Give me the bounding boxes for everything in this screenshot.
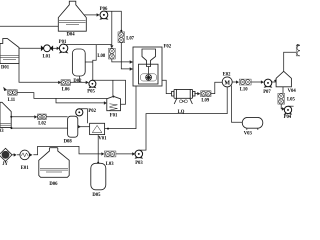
tank D04 (58, 1, 86, 37)
svg-text:LQ: LQ (178, 110, 185, 115)
arrow into L06 (58, 81, 61, 84)
tank D01 (0, 39, 19, 71)
valve L04 at right edge (296, 44, 303, 56)
pump P06 (99, 7, 108, 20)
wire L09 to E02 (211, 82, 222, 93)
svg-text:F02: F02 (164, 45, 172, 50)
node D03 lower outlet (11, 127, 13, 129)
pump P02 (76, 109, 97, 116)
svg-text:P01: P01 (59, 40, 67, 45)
filter F01 (107, 96, 121, 118)
valve L07 (118, 32, 135, 43)
wire P07 to V04 with node (272, 80, 277, 82)
wire D01 to L01 (19, 47, 42, 49)
svg-text:V03: V03 (244, 132, 253, 137)
wire top feed into D04 (0, 25, 58, 27)
tank V01 (90, 123, 108, 141)
svg-text:P02: P02 (88, 109, 96, 114)
vessel D08 (64, 116, 78, 144)
wire JY to E01 with arrow (12, 153, 17, 156)
wire D03 bottom line to D08 (12, 127, 68, 129)
wire L10 to P07 with arrow (251, 80, 264, 83)
svg-text:D08: D08 (64, 140, 73, 145)
valve L03 (104, 151, 116, 167)
wire P05 discharge over F01 (92, 80, 125, 104)
tank D03 (0, 102, 11, 134)
wire P01 discharge to L08 junction (64, 44, 112, 46)
wire L11 staircase to F01 (17, 93, 107, 99)
valve L05 (278, 93, 296, 104)
svg-text:L03: L03 (106, 162, 114, 167)
wire D02 bottom drop (78, 76, 80, 82)
svg-text:D05: D05 (92, 193, 101, 198)
node L07 top junction (120, 30, 122, 32)
crystallizer F02 outer (133, 45, 172, 86)
valve L10 (239, 79, 251, 93)
svg-text:P04: P04 (284, 115, 292, 120)
svg-text:L06: L06 (62, 87, 70, 92)
node D03 upper outlet (10, 116, 12, 118)
wire drop to F01 apex (112, 80, 114, 96)
node F01 apex (112, 96, 114, 98)
svg-text:D02: D02 (73, 79, 82, 84)
wire D02 side stub (85, 61, 93, 63)
valve L11 with inlet arrow (3, 87, 17, 103)
wire L07 bottom to F02 port B with arrow (121, 43, 133, 71)
svg-text:D04: D04 (67, 33, 76, 38)
wire D04 to P06 with arrow (84, 13, 100, 16)
svg-text:E01: E01 (21, 166, 29, 171)
svg-text:P05: P05 (87, 90, 95, 95)
pump P03 (135, 150, 144, 166)
wire V04 bottom to L05 (282, 87, 284, 94)
wire jog from P01 line down to P05 top (93, 45, 96, 81)
pump P05 (87, 80, 96, 94)
vessel D02 (72, 49, 85, 84)
valve L08 (97, 48, 115, 59)
valve L02 (37, 114, 46, 126)
wire E02 to L10 with arrow (232, 80, 239, 83)
svg-text:P07: P07 (263, 90, 271, 95)
wire D01 bottom to L06 line (19, 64, 59, 83)
svg-text:E02: E02 (223, 73, 231, 78)
valve L09 (201, 91, 211, 104)
motor E02 (222, 73, 232, 87)
wire D03 to L02 with arrow (11, 115, 37, 118)
wire V04 top to right edge valve (284, 52, 297, 71)
svg-text:V01: V01 (98, 137, 107, 142)
wire L01 to P01 with arrow (53, 47, 60, 50)
valve L01 (41, 45, 53, 60)
tank V04 (276, 71, 296, 94)
heater E01 (17, 150, 33, 171)
diamond JY (0, 148, 12, 167)
svg-text:M: M (224, 80, 230, 86)
wire F02 right to LQ (162, 80, 172, 93)
tank D06 (39, 148, 69, 187)
svg-text:L11: L11 (8, 98, 16, 103)
wire arrow into L03 (101, 152, 104, 155)
wire V01 bottom to D05 (97, 135, 99, 164)
wire arrow into P03 (116, 152, 135, 155)
wire tee down to L08 with arrow (110, 11, 113, 48)
svg-text:L09: L09 (201, 99, 209, 104)
svg-text:D01: D01 (1, 65, 10, 70)
heat exchanger LQ (172, 89, 195, 115)
tank V03 (242, 117, 262, 136)
svg-text:L10: L10 (240, 88, 248, 93)
wire L06 to P05 with arrow (70, 81, 88, 84)
tank D05 (91, 163, 106, 198)
wire P06 discharge to L07 top (104, 11, 121, 30)
svg-text:P03: P03 (135, 161, 143, 166)
wire branch down to F01 side with arrow (56, 98, 107, 104)
node D05 top (97, 161, 99, 163)
wire E02 bottom to P03 riser (139, 87, 227, 150)
svg-text:L05: L05 (287, 97, 295, 102)
svg-text:L08: L08 (97, 54, 105, 59)
svg-text:D06: D06 (49, 182, 58, 187)
wire D08 to V01 with arrow (78, 125, 90, 128)
wire L05 to P04 with arrow (281, 104, 285, 111)
svg-text:V04: V04 (288, 89, 297, 94)
wire L02 to D08 (46, 116, 67, 118)
svg-text:JY: JY (2, 162, 8, 167)
wire L08 bottom to F02 port A with arrow (112, 59, 133, 64)
wire E01 zigzag to L03 (33, 146, 101, 154)
svg-text:L01: L01 (43, 54, 51, 59)
wire E02 branch to V03 (232, 86, 243, 123)
svg-text:L02: L02 (38, 121, 46, 126)
pump P01 (59, 40, 69, 54)
wire F02 bottom to V01 node (105, 86, 136, 130)
pump P04 (284, 106, 294, 120)
pump P07 (263, 79, 272, 95)
svg-text:F01: F01 (110, 114, 118, 119)
svg-text:L07: L07 (126, 37, 134, 42)
wire LQ to L09 with arrow (194, 92, 200, 95)
wire P02 discharge to V01 top (79, 109, 87, 124)
valve L06 (61, 80, 70, 93)
